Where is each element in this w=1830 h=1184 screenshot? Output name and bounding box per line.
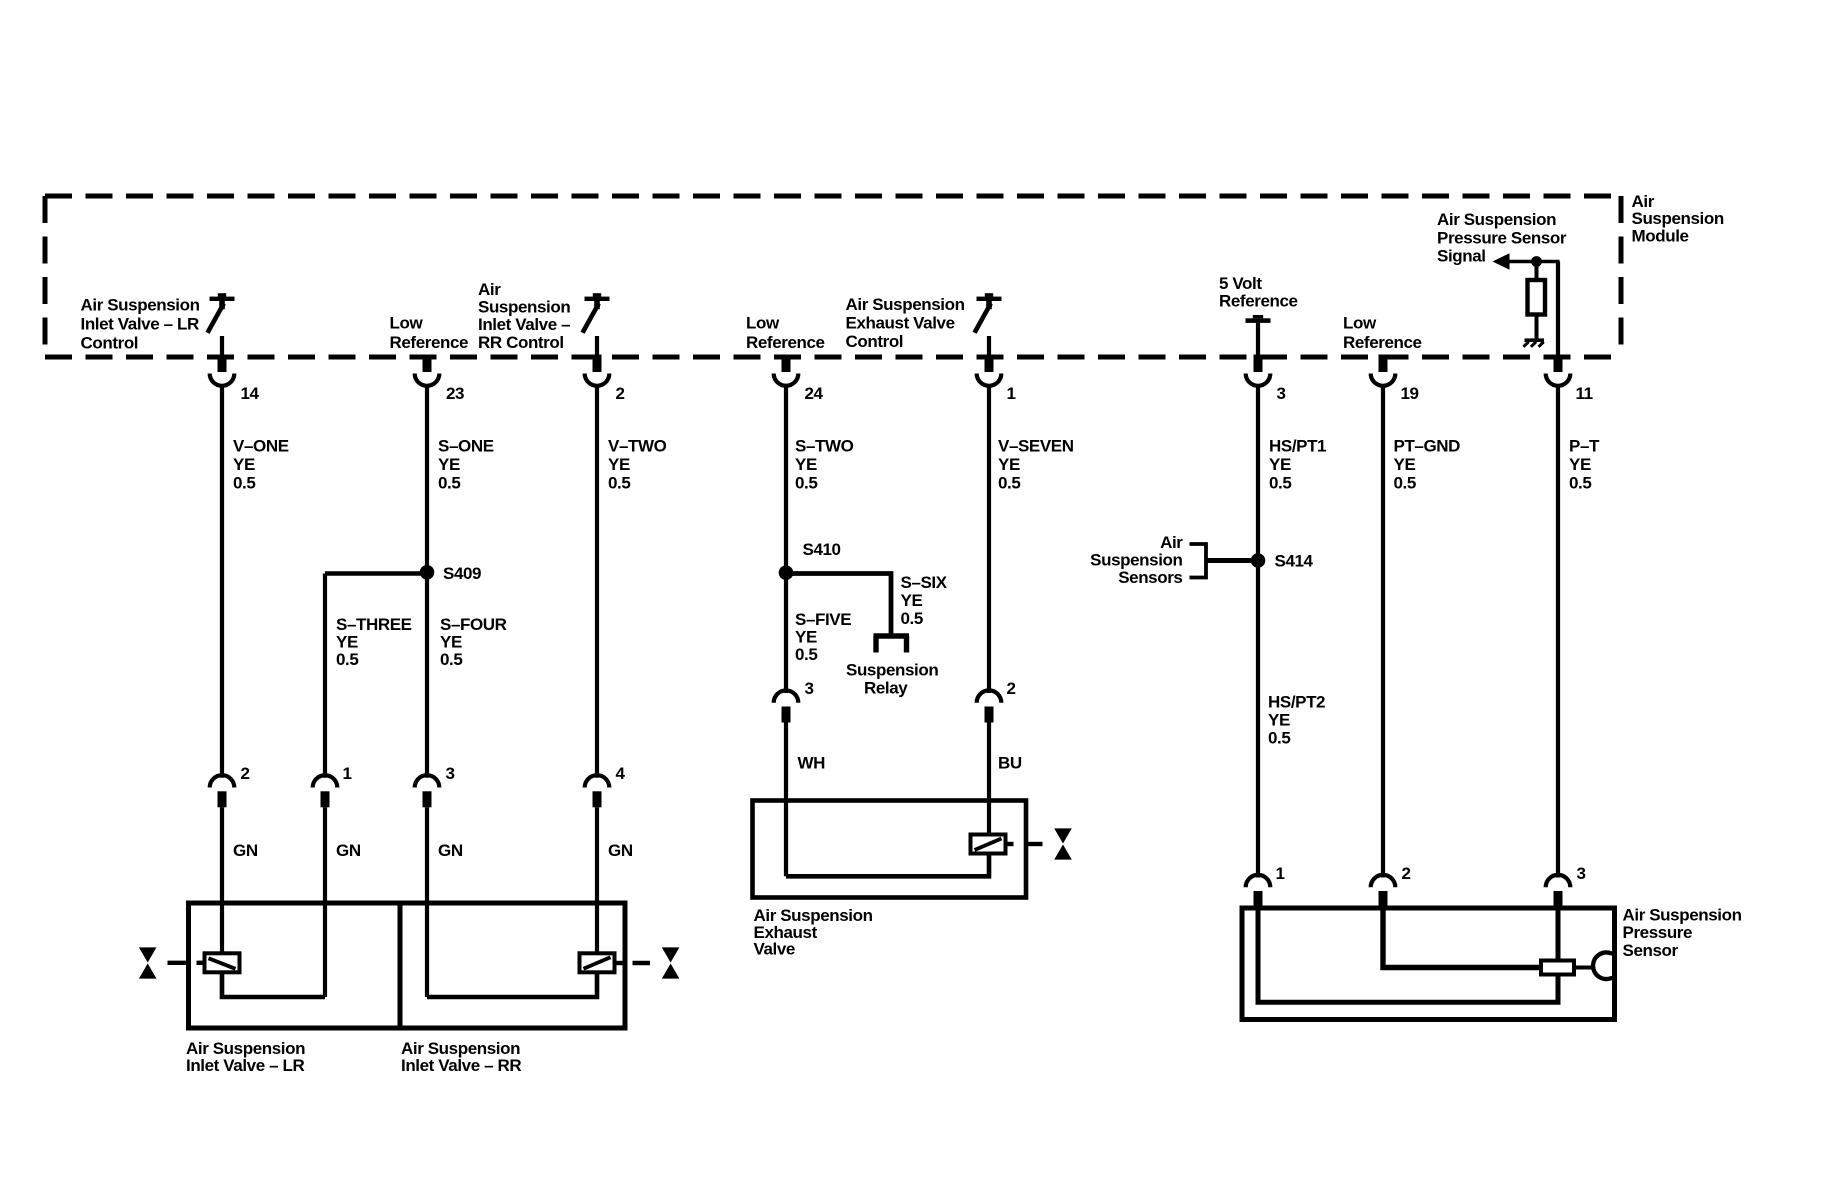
svg-text:1: 1 (343, 764, 352, 783)
svg-text:S414: S414 (1275, 552, 1314, 571)
wire GN (RR valve return) (425, 807, 429, 997)
svg-text:11: 11 (1576, 384, 1593, 403)
svg-text:YE: YE (336, 633, 358, 652)
svg-text:YE: YE (438, 455, 460, 474)
svg-text:YE: YE (998, 455, 1020, 474)
svg-text:14: 14 (241, 384, 260, 403)
wire GN (to RR solenoid) (595, 807, 599, 953)
connector pin 1 (pressure sensor) (1246, 875, 1271, 887)
wire: RR valve internal return path (427, 972, 597, 997)
connector terminal pin 14 (218, 355, 227, 373)
splice S409 (420, 565, 435, 580)
switch U: Air Suspension Exhaust Valve Control (977, 297, 1002, 301)
pneumatic valve symbol LR (dashed link + bowtie) (197, 961, 205, 965)
svg-text:Relay: Relay (864, 679, 908, 698)
svg-text:0.5: 0.5 (901, 609, 923, 628)
svg-text:S–SIX: S–SIX (901, 573, 948, 592)
Air Suspension Pressure Sensor box (1242, 908, 1615, 1020)
svg-text:0.5: 0.5 (795, 474, 817, 493)
wire: exhaust valve internal return path (786, 853, 989, 876)
connector pin 4 (inlet valve RR) (585, 775, 610, 787)
Air Suspension Exhaust Valve box (753, 801, 1027, 898)
wire to resistor (1535, 262, 1539, 282)
svg-text:3: 3 (805, 679, 814, 698)
svg-text:0.5: 0.5 (440, 650, 462, 669)
connector pin 1 (inlet valve LR) (313, 775, 338, 787)
svg-text:Inlet Valve – LR: Inlet Valve – LR (81, 315, 199, 334)
svg-text:YE: YE (795, 628, 817, 647)
svg-text:YE: YE (1268, 711, 1290, 730)
svg-text:GN: GN (336, 841, 361, 860)
switch U: Air Suspension Inlet Valve - RR Control (585, 297, 610, 301)
pneumatic valve symbol exhaust (dashed link + bowtie) (1006, 842, 1014, 846)
svg-text:Exhaust Valve: Exhaust Valve (846, 314, 955, 333)
wire S-ONE (425, 386, 429, 572)
svg-text:GN: GN (233, 841, 258, 860)
svg-text:V–SEVEN: V–SEVEN (998, 437, 1074, 456)
svg-text:Air Suspension: Air Suspension (846, 295, 965, 314)
svg-text:Reference: Reference (1343, 333, 1422, 352)
svg-text:S–TWO: S–TWO (795, 437, 854, 456)
svg-text:19: 19 (1401, 384, 1419, 403)
svg-text:1: 1 (1276, 864, 1285, 883)
connector terminal pin 3 (1254, 355, 1263, 373)
svg-text:0.5: 0.5 (998, 474, 1020, 493)
svg-text:P–T: P–T (1569, 437, 1600, 456)
connector pin 2 (exhaust valve) (977, 690, 1002, 702)
svg-text:YE: YE (901, 591, 923, 610)
connector terminal pin 23 (423, 355, 432, 373)
wire: sensor internal pin3 to transducer top (1556, 907, 1561, 961)
svg-text:Pressure Sensor: Pressure Sensor (1437, 228, 1567, 247)
svg-text:1: 1 (1007, 384, 1016, 403)
svg-text:3: 3 (446, 764, 455, 783)
svg-text:2: 2 (1402, 864, 1411, 883)
solenoid coil: exhaust valve (971, 835, 1006, 854)
wire: LR valve internal return path (222, 972, 325, 997)
svg-text:Inlet Valve – RR: Inlet Valve – RR (401, 1056, 521, 1075)
svg-text:Reference: Reference (390, 333, 469, 352)
svg-text:YE: YE (1269, 455, 1291, 474)
connector terminal pin 2 (593, 355, 602, 373)
svg-text:S409: S409 (443, 564, 481, 583)
svg-text:Reference: Reference (1219, 292, 1298, 311)
svg-text:Suspension: Suspension (1632, 209, 1724, 228)
svg-text:Air: Air (478, 280, 501, 299)
pneumatic valve symbol RR (dashed link + bowtie) (615, 961, 625, 965)
svg-text:Signal: Signal (1437, 247, 1486, 266)
svg-text:0.5: 0.5 (1269, 474, 1291, 493)
wire: sensor internal pin1 to transducer bottom (1258, 907, 1558, 1002)
svg-text:Sensors: Sensors (1118, 568, 1182, 587)
svg-text:0.5: 0.5 (795, 645, 817, 664)
wire S-FIVE (784, 573, 788, 693)
wire S-FOUR (425, 572, 429, 778)
wire S-SIX (branch to relay) (786, 574, 891, 637)
off-page connector: Air Suspension Sensors bracket (1190, 544, 1207, 578)
svg-text:Control: Control (81, 334, 139, 353)
svg-text:V–ONE: V–ONE (233, 437, 289, 456)
svg-text:2: 2 (616, 384, 625, 403)
svg-text:Low: Low (1343, 314, 1377, 333)
svg-text:3: 3 (1577, 864, 1586, 883)
svg-text:2: 2 (1007, 679, 1016, 698)
svg-text:Inlet Valve –: Inlet Valve – (478, 315, 570, 334)
wire GN (LR valve return) (323, 807, 327, 997)
wire BU (987, 723, 991, 835)
connector pin 2 (pressure sensor) (1371, 875, 1396, 887)
svg-text:YE: YE (1569, 455, 1591, 474)
svg-text:2: 2 (241, 764, 250, 783)
svg-text:S–ONE: S–ONE (438, 437, 494, 456)
wire: sensor internal pin2 to transducer left (1383, 907, 1541, 968)
svg-text:YE: YE (440, 633, 462, 652)
svg-text:V–TWO: V–TWO (608, 437, 667, 456)
svg-text:PT–GND: PT–GND (1394, 437, 1461, 456)
connector pin 3 (exhaust valve) (774, 690, 799, 702)
svg-text:S–THREE: S–THREE (336, 615, 412, 634)
svg-text:BU: BU (998, 754, 1022, 773)
wire V-SEVEN (987, 386, 991, 693)
solenoid coil: inlet valve LR (205, 953, 240, 972)
svg-text:24: 24 (805, 384, 824, 403)
ground (module internal) (1525, 338, 1545, 342)
svg-text:23: 23 (446, 384, 464, 403)
svg-text:YE: YE (608, 455, 630, 474)
svg-text:Suspension: Suspension (478, 298, 570, 317)
svg-text:Suspension: Suspension (846, 661, 938, 680)
wire S-THREE (branch from S409) (325, 571, 427, 576)
svg-text:0.5: 0.5 (1394, 474, 1416, 493)
svg-text:Control: Control (846, 332, 904, 351)
svg-text:Air Suspension: Air Suspension (1623, 906, 1742, 925)
connector terminal pin 19 (1379, 355, 1388, 373)
svg-text:GN: GN (438, 841, 463, 860)
svg-text:RR Control: RR Control (478, 333, 564, 352)
svg-text:Low: Low (390, 314, 424, 333)
svg-text:0.5: 0.5 (1569, 474, 1591, 493)
wire S-TWO (784, 386, 788, 573)
svg-text:Air Suspension: Air Suspension (81, 296, 200, 315)
wire P-T (1556, 386, 1560, 878)
svg-text:3: 3 (1277, 384, 1286, 403)
wire pin 11 inside module (1556, 262, 1560, 358)
svg-text:0.5: 0.5 (233, 474, 255, 493)
svg-text:YE: YE (795, 455, 817, 474)
svg-text:WH: WH (798, 754, 826, 773)
svg-text:Air Suspension: Air Suspension (1437, 210, 1556, 229)
wire WH (784, 723, 788, 877)
connector terminal pin 11 (1554, 355, 1563, 373)
svg-text:Module: Module (1632, 226, 1689, 245)
svg-text:Suspension: Suspension (1090, 550, 1182, 569)
svg-text:GN: GN (608, 841, 633, 860)
svg-text:0.5: 0.5 (608, 474, 630, 493)
svg-text:S–FOUR: S–FOUR (440, 615, 507, 634)
svg-text:Low: Low (746, 314, 780, 333)
wire V-ONE (220, 386, 224, 778)
wire HS/PT2 (1256, 561, 1260, 878)
off-page connector: Suspension Relay fork (874, 633, 910, 638)
connector terminal pin 1 (985, 355, 994, 373)
svg-text:0.5: 0.5 (1268, 729, 1290, 748)
5 Volt Reference terminal bar (1246, 318, 1271, 323)
junction dot (signal node) (1531, 256, 1542, 267)
resistor (module internal pull-up) (1528, 280, 1546, 315)
Air Suspension Inlet Valve boxes (LR & RR enclosure) (189, 903, 626, 1028)
svg-text:HS/PT1: HS/PT1 (1269, 437, 1326, 456)
svg-text:S410: S410 (803, 540, 841, 559)
Air Suspension Module boundary (dashed box) (45, 196, 1621, 357)
connector pin 3 (inlet valve RR) (415, 775, 440, 787)
svg-text:YE: YE (233, 455, 255, 474)
pressure sensor signal arrow (1493, 253, 1510, 270)
svg-text:5 Volt: 5 Volt (1219, 274, 1262, 293)
wire GN (to LR solenoid) (220, 807, 224, 953)
switch U: Air Suspension Inlet Valve - LR Control (210, 297, 235, 301)
splice S410 (779, 565, 794, 580)
svg-text:Air: Air (1632, 192, 1655, 211)
svg-text:Air: Air (1160, 533, 1183, 552)
pressure transducer symbol (1541, 961, 1574, 975)
wire HS/PT1 (1256, 386, 1260, 561)
wire V-TWO (595, 386, 599, 778)
svg-text:Pressure: Pressure (1623, 923, 1693, 942)
svg-text:S–FIVE: S–FIVE (795, 610, 851, 629)
svg-text:Inlet Valve – LR: Inlet Valve – LR (186, 1056, 304, 1075)
svg-text:0.5: 0.5 (336, 650, 358, 669)
svg-text:HS/PT2: HS/PT2 (1268, 693, 1325, 712)
connector terminal pin 24 (782, 355, 791, 373)
solenoid coil: inlet valve RR (580, 953, 615, 972)
connector pin 2 (inlet valve LR) (210, 775, 235, 787)
connector pin 3 (pressure sensor) (1546, 875, 1571, 887)
svg-text:0.5: 0.5 (438, 474, 460, 493)
wire PT-GND (1381, 386, 1385, 878)
splice S414 (1251, 553, 1266, 568)
svg-text:Valve: Valve (754, 940, 796, 959)
svg-text:YE: YE (1394, 455, 1416, 474)
svg-text:4: 4 (616, 764, 626, 783)
svg-text:Sensor: Sensor (1623, 941, 1679, 960)
svg-text:Reference: Reference (746, 333, 825, 352)
